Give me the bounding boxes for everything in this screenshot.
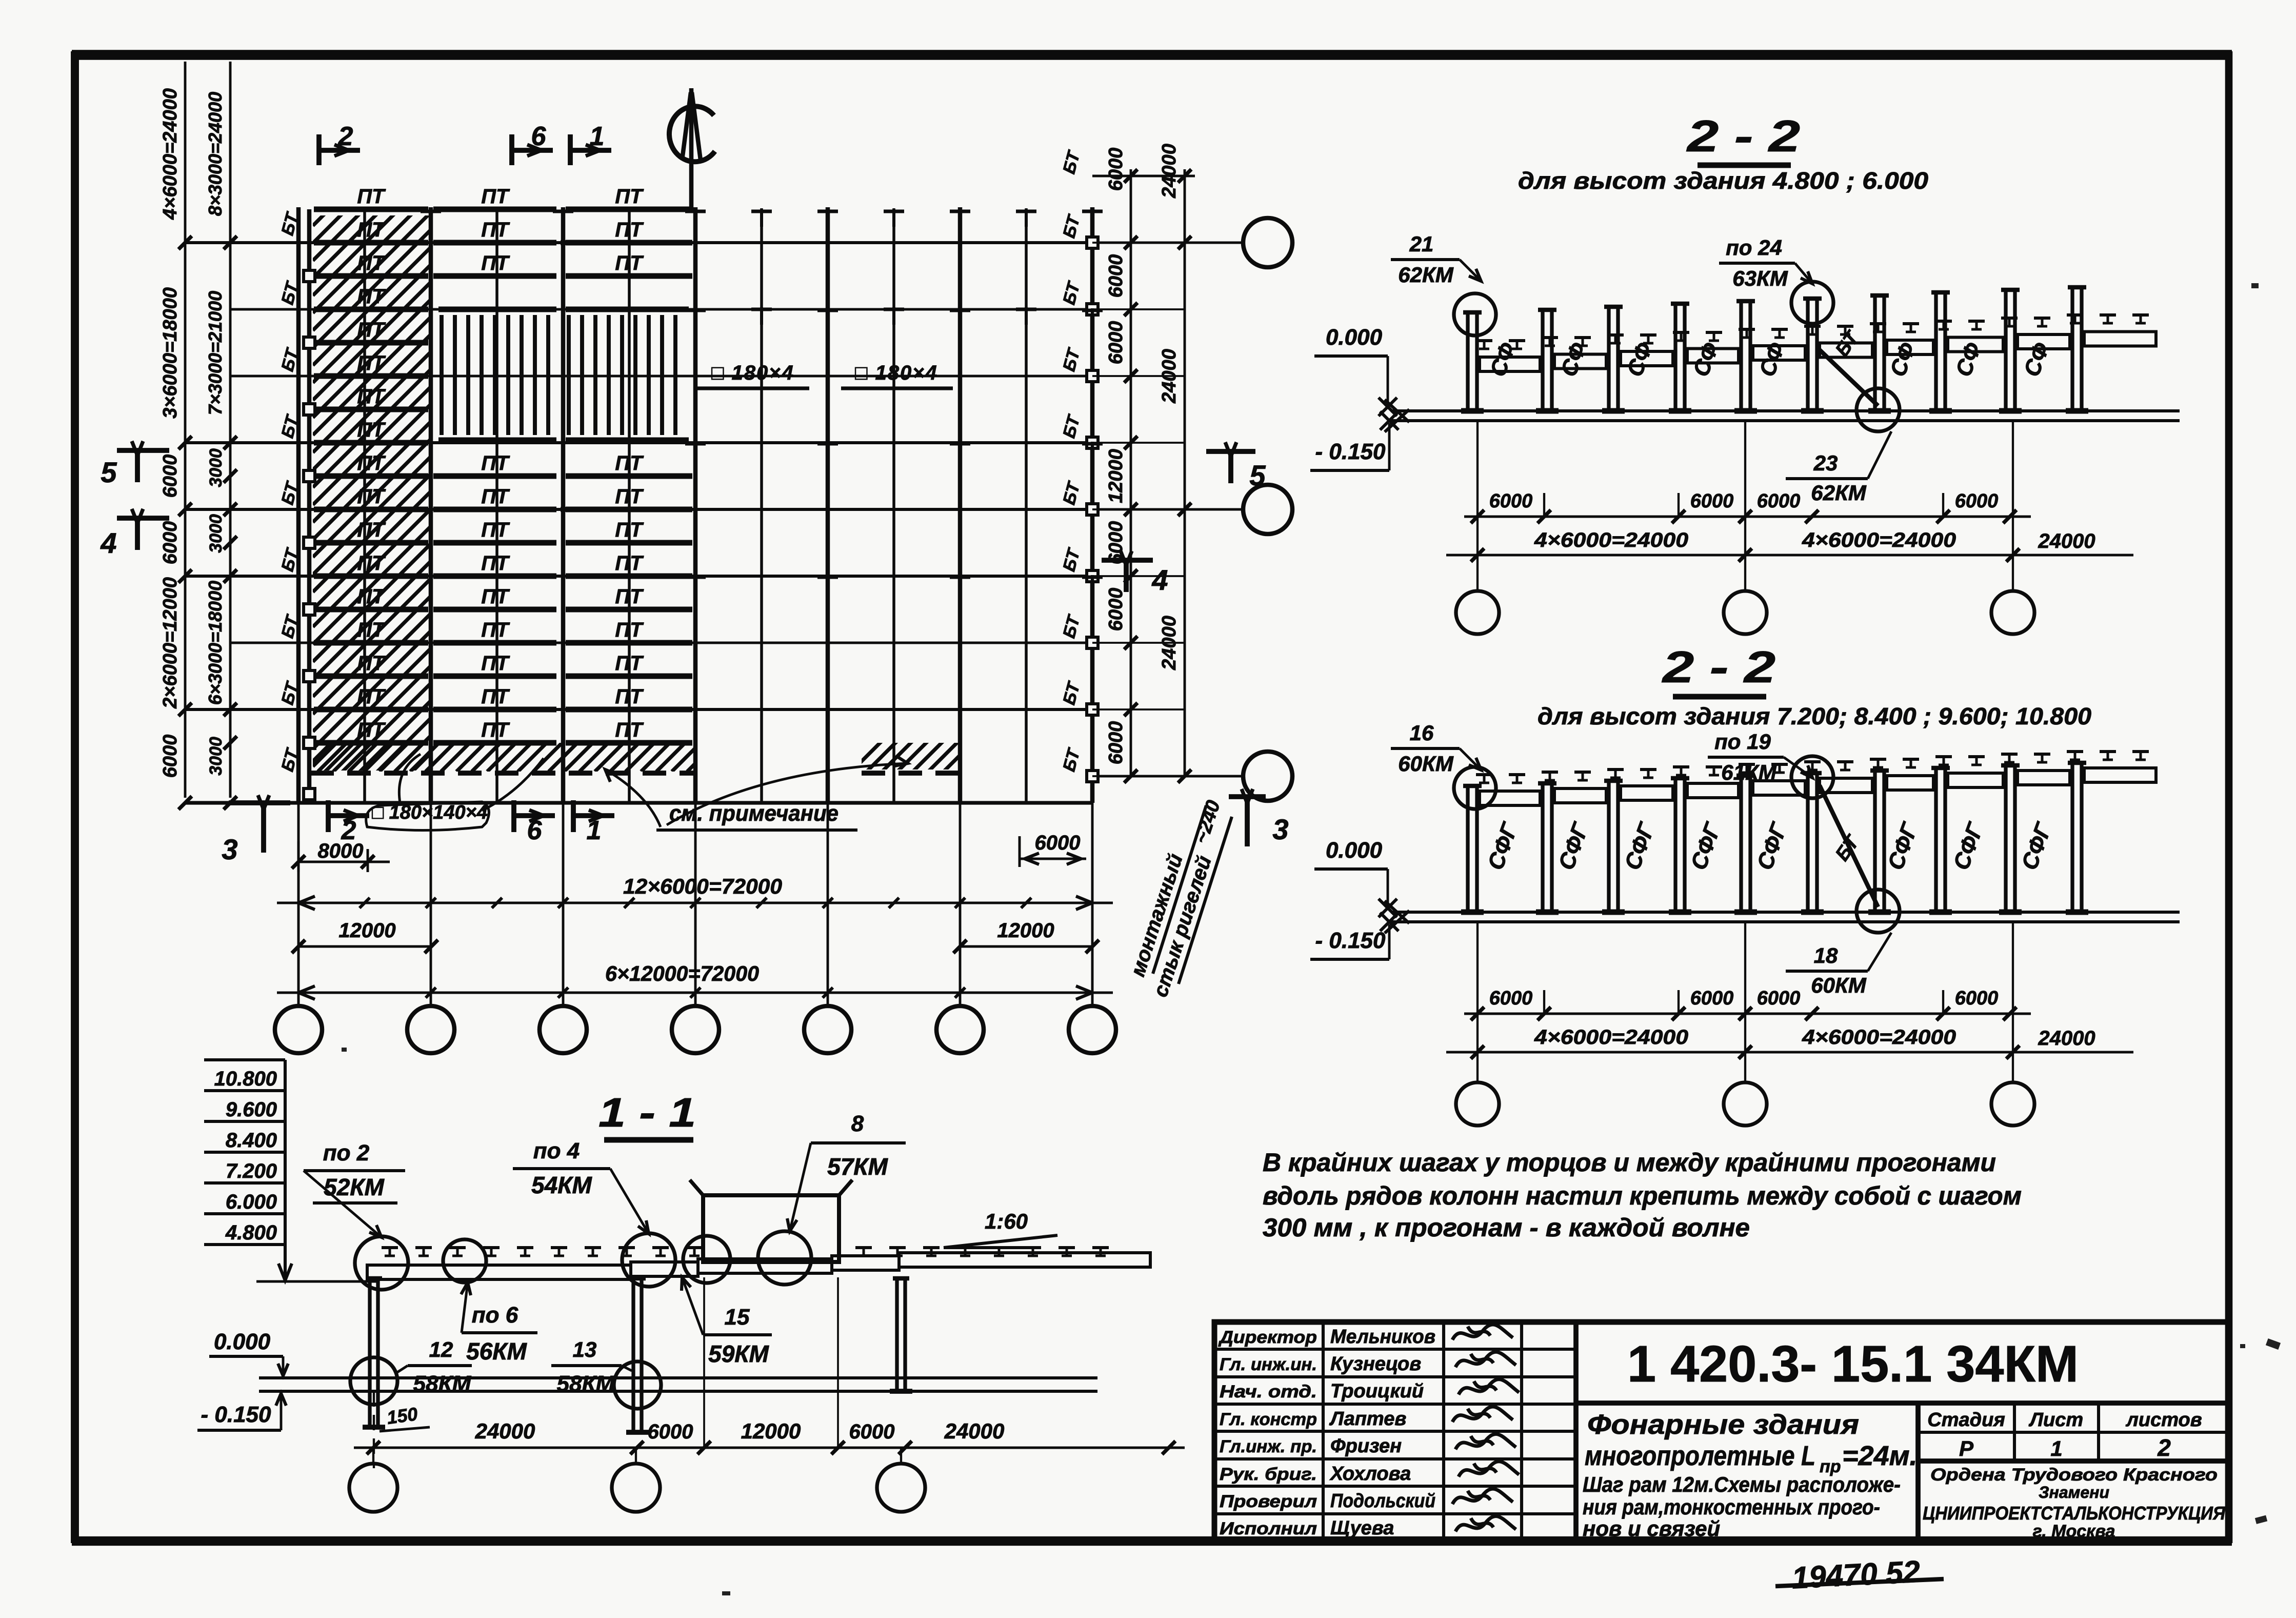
section 2-2: dimension line 24000s xyxy=(1446,1051,2133,1054)
svg-text:листов: листов xyxy=(2125,1409,2202,1431)
svg-text:ПТ: ПТ xyxy=(615,519,644,541)
svg-text:4×6000=24000: 4×6000=24000 xyxy=(1534,1026,1688,1049)
section 2-2: deck rail symbols xyxy=(1476,341,1492,349)
svg-text:24000: 24000 xyxy=(2038,530,2095,553)
svg-text:6000: 6000 xyxy=(159,735,181,778)
section 1-1: grid bubbles xyxy=(372,1448,374,1465)
svg-text:ПТ: ПТ xyxy=(357,619,386,641)
title block rows xyxy=(1214,1348,1576,1351)
svg-text:для высот здания 7.200; 8.4: для высот здания 7.200; 8.400 ; 9.600; 1… xyxy=(1538,703,2091,729)
plan: left dimension lines xyxy=(184,62,187,798)
svg-text:6: 6 xyxy=(531,122,547,151)
svg-text:8000: 8000 xyxy=(318,840,364,862)
svg-text:6000: 6000 xyxy=(1489,490,1533,512)
svg-text:Проверил: Проверил xyxy=(1220,1492,1317,1511)
plan: dashed erection joint line xyxy=(310,771,697,776)
title block stage/sheet xyxy=(1918,1431,2229,1434)
svg-text:ПТ: ПТ xyxy=(481,452,510,475)
svg-text:0.000: 0.000 xyxy=(1326,325,1383,350)
svg-text:Гл. инж.ин.: Гл. инж.ин. xyxy=(1220,1355,1317,1374)
border frame xyxy=(72,50,2232,60)
svg-text:6000: 6000 xyxy=(1690,988,1734,1009)
section 2-2: dimension line 24000s xyxy=(1446,554,2133,557)
svg-text:3: 3 xyxy=(222,833,237,865)
plan: right dimension lines xyxy=(1130,169,1132,776)
svg-text:23: 23 xyxy=(1813,451,1838,475)
svg-text:вдоль рядов колонн настил: вдоль рядов колонн настил крепить между … xyxy=(1263,1181,2022,1210)
section 2-2: roof beams between columns xyxy=(1480,791,1540,805)
section 2-2: ground lines xyxy=(1391,409,2180,412)
svg-text:ПТ: ПТ xyxy=(481,685,510,708)
svg-text:ПТ: ПТ xyxy=(481,719,510,741)
section 2-2: columns xyxy=(1466,786,1469,912)
svg-text:Стадия: Стадия xyxy=(1927,1409,2005,1431)
scanner specks xyxy=(2251,283,2259,288)
svg-text:3: 3 xyxy=(1272,813,1288,845)
svg-text:ПТ: ПТ xyxy=(615,619,644,641)
svg-text:ПТ: ПТ xyxy=(481,652,510,675)
svg-text:12000: 12000 xyxy=(338,919,395,942)
plan: intermediate vertical grid lines xyxy=(363,208,366,803)
plan: rows extending to right grid bubbles xyxy=(1092,242,1243,244)
svg-text:4×6000=24000: 4×6000=24000 xyxy=(1802,1026,1956,1049)
svg-text:ПТ: ПТ xyxy=(481,619,510,641)
svg-text:ПТ: ПТ xyxy=(615,452,644,475)
svg-text:6000: 6000 xyxy=(159,455,181,498)
svg-text:3000: 3000 xyxy=(206,514,226,553)
svg-text:24000: 24000 xyxy=(1159,616,1180,670)
svg-text:Фризен: Фризен xyxy=(1330,1435,1402,1457)
north arrow symbol xyxy=(669,106,715,162)
svg-text:6×12000=72000: 6×12000=72000 xyxy=(605,961,759,985)
plan: right row extension lines xyxy=(1092,175,1185,177)
svg-text:ПТ: ПТ xyxy=(615,652,644,675)
svg-text:ПТ: ПТ xyxy=(615,252,644,274)
svg-text:58КМ: 58КМ xyxy=(557,1371,615,1396)
svg-text:Щуева: Щуева xyxy=(1330,1517,1394,1539)
plan: section markers 5 and 4 left xyxy=(117,448,169,453)
svg-text:60КМ: 60КМ xyxy=(1398,752,1454,776)
section 2-2: columns xyxy=(1466,312,1469,411)
plan: left column line with gusset squares and BT labels xyxy=(307,209,312,800)
svg-text:57КМ: 57КМ xyxy=(827,1153,888,1180)
svg-text:ПТ: ПТ xyxy=(357,219,386,241)
svg-text:6000: 6000 xyxy=(1105,148,1127,191)
svg-text:6000: 6000 xyxy=(1105,254,1127,298)
svg-text:ПТ: ПТ xyxy=(481,219,510,241)
section 2-2: dimension line 6000s xyxy=(1464,516,2031,518)
section 1-1: columns xyxy=(368,1278,371,1427)
svg-text:Кузнецов: Кузнецов xyxy=(1330,1353,1421,1375)
svg-text:12000: 12000 xyxy=(997,919,1054,942)
section 2-2: grid bubbles xyxy=(1476,922,1479,1082)
svg-text:Рук. бриг.: Рук. бриг. xyxy=(1220,1465,1317,1484)
svg-text:ПТ: ПТ xyxy=(357,285,386,308)
svg-text:1: 1 xyxy=(2050,1436,2062,1461)
svg-text:□ 180×4: □ 180×4 xyxy=(855,362,938,384)
svg-text:24000: 24000 xyxy=(944,1419,1005,1443)
plan: right grid bubbles xyxy=(1243,218,1292,267)
svg-text:24000: 24000 xyxy=(2038,1027,2095,1050)
svg-text:6000: 6000 xyxy=(1035,832,1081,854)
svg-text:4×6000=24000: 4×6000=24000 xyxy=(159,88,181,220)
svg-text:Лист: Лист xyxy=(2028,1409,2083,1431)
svg-text:4.800: 4.800 xyxy=(225,1221,277,1244)
svg-text:ПТ: ПТ xyxy=(481,552,510,575)
svg-text:60КМ: 60КМ xyxy=(1811,973,1867,997)
plan: horizontal grid rows xyxy=(185,241,1092,244)
svg-text:Подольский: Подольский xyxy=(1330,1490,1435,1512)
svg-text:Гл.инж. пр.: Гл.инж. пр. xyxy=(1220,1437,1317,1456)
svg-text:8: 8 xyxy=(851,1111,864,1136)
plan: bottom dimension 6000 right xyxy=(1020,858,1086,860)
title block columns xyxy=(1322,1322,1325,1541)
svg-text:3000: 3000 xyxy=(206,448,226,487)
svg-text:Фонарные здания: Фонарные здания xyxy=(1587,1409,1859,1440)
svg-text:5: 5 xyxy=(101,456,117,488)
svg-text:- 0.150: - 0.150 xyxy=(1315,439,1386,464)
svg-text:нов и связей: нов и связей xyxy=(1583,1516,1720,1541)
svg-text:ПТ: ПТ xyxy=(481,185,510,208)
svg-text:1: 1 xyxy=(587,816,602,845)
plan: profiled deck stripe panels xyxy=(438,307,556,312)
svg-text:4×6000=24000: 4×6000=24000 xyxy=(1534,529,1688,551)
section 1-1: ground lines xyxy=(259,1376,1097,1379)
svg-text:6000: 6000 xyxy=(849,1420,895,1443)
svg-text:1:60: 1:60 xyxy=(985,1209,1028,1233)
svg-text:7.200: 7.200 xyxy=(226,1160,277,1182)
svg-text:54КМ: 54КМ xyxy=(531,1172,592,1198)
svg-text:6000: 6000 xyxy=(1105,721,1127,765)
plan: bottom dimension line 12x6000=72000 xyxy=(277,902,1113,904)
svg-text:г. Москва: г. Москва xyxy=(2033,1522,2115,1541)
svg-text:ПТ: ПТ xyxy=(357,485,386,508)
plan: bottom dimension line 8000 xyxy=(298,861,390,863)
plan: top-right short row xyxy=(1092,175,1195,177)
svg-text:1 420.3- 15.1 34КМ: 1 420.3- 15.1 34КМ xyxy=(1627,1335,2079,1393)
svg-text:ПТ: ПТ xyxy=(481,485,510,508)
plan: bottom edge row xyxy=(185,801,1092,804)
svg-text:24000: 24000 xyxy=(1159,144,1180,199)
svg-text:10.800: 10.800 xyxy=(214,1068,277,1090)
svg-text:0.000: 0.000 xyxy=(1326,838,1383,863)
svg-text:61КМ: 61КМ xyxy=(1721,760,1777,784)
svg-text:2 - 2: 2 - 2 xyxy=(1661,643,1775,692)
svg-text:ЦНИИПРОЕКТСТАЛЬКОНСТРУКЦИЯ: ЦНИИПРОЕКТСТАЛЬКОНСТРУКЦИЯ xyxy=(1923,1503,2226,1524)
svg-text:6: 6 xyxy=(527,816,543,845)
plan: section markers 5 and 4 right xyxy=(1206,449,1255,454)
title block signatures xyxy=(1452,1325,1513,1340)
svg-text:для высот здания 4.800 ; 6.: для высот здания 4.800 ; 6.000 xyxy=(1518,167,1928,194)
svg-text:Нач. отд.: Нач. отд. xyxy=(1220,1382,1317,1402)
plan: main vertical grid lines xyxy=(296,207,301,803)
svg-text:ния рам,тонкостенных прого-: ния рам,тонкостенных прого- xyxy=(1583,1495,1880,1519)
svg-text:Шаг рам 12м.Схемы расположе-: Шаг рам 12м.Схемы расположе- xyxy=(1583,1472,1901,1496)
svg-text:2: 2 xyxy=(2157,1434,2171,1461)
svg-text:ПТ: ПТ xyxy=(357,319,386,341)
svg-text:ПТ: ПТ xyxy=(357,419,386,441)
svg-text:6000: 6000 xyxy=(1757,490,1801,512)
svg-text:13: 13 xyxy=(573,1337,597,1362)
svg-text:- 0.150: - 0.150 xyxy=(201,1402,272,1427)
svg-text:ПТ: ПТ xyxy=(615,485,644,508)
svg-text:Директор: Директор xyxy=(1218,1328,1317,1347)
svg-text:4: 4 xyxy=(100,527,116,559)
plan: T symbols on grid tops xyxy=(421,209,441,227)
svg-text:62КМ: 62КМ xyxy=(1811,481,1867,505)
svg-text:300 мм , к прогонам - в каж: 300 мм , к прогонам - в каждой волне xyxy=(1263,1213,1750,1242)
svg-text:12×6000=72000: 12×6000=72000 xyxy=(623,874,782,898)
svg-text:ПТ: ПТ xyxy=(357,452,386,475)
section 1-1: deck rail symbols xyxy=(382,1248,398,1256)
plan: bottom dimension 12000 left xyxy=(298,945,431,948)
svg-text:6000: 6000 xyxy=(1105,321,1127,365)
svg-text:8.400: 8.400 xyxy=(226,1129,277,1152)
svg-text:ПТ: ПТ xyxy=(357,352,386,374)
svg-text:6000: 6000 xyxy=(1757,988,1801,1009)
svg-text:24000: 24000 xyxy=(475,1419,535,1443)
svg-text:63КМ: 63КМ xyxy=(1732,266,1788,290)
plan: bottom grid bubbles xyxy=(275,1006,322,1053)
svg-text:6000: 6000 xyxy=(1105,521,1127,565)
svg-text:9.600: 9.600 xyxy=(226,1098,277,1121)
svg-text:Троицкий: Троицкий xyxy=(1330,1380,1424,1402)
svg-text:150: 150 xyxy=(386,1403,419,1428)
svg-text:4: 4 xyxy=(1151,564,1168,596)
svg-text:Знамени: Знамени xyxy=(2039,1483,2109,1502)
svg-text:24000: 24000 xyxy=(1159,349,1180,404)
svg-text:ПТ: ПТ xyxy=(615,219,644,241)
section 1-1: thin axis lines xyxy=(703,1277,705,1448)
svg-text:ПТ: ПТ xyxy=(357,719,386,741)
svg-text:12000: 12000 xyxy=(741,1419,801,1443)
section 1-1: base circles xyxy=(350,1357,397,1405)
svg-text:6000: 6000 xyxy=(648,1420,693,1443)
svg-text:1 - 1: 1 - 1 xyxy=(598,1090,696,1135)
plan: bottom section markers 2 6 1 xyxy=(326,800,331,832)
plan: axis drop lines to bottom circles xyxy=(297,803,300,1005)
svg-text:58КМ: 58КМ xyxy=(413,1371,472,1396)
svg-text:Исполнил: Исполнил xyxy=(1220,1519,1317,1538)
svg-text:6000: 6000 xyxy=(1955,988,1999,1009)
svg-text:12: 12 xyxy=(429,1337,453,1362)
svg-text:Мельников: Мельников xyxy=(1330,1326,1435,1348)
svg-text:0.000: 0.000 xyxy=(214,1329,271,1354)
plan: purlin (beam) rows with PT labels xyxy=(314,207,428,212)
svg-text:см. примечание: см. примечание xyxy=(669,801,838,826)
svg-text:ПТ: ПТ xyxy=(357,519,386,541)
svg-text:18: 18 xyxy=(1814,943,1838,968)
section 1-1: lantern box xyxy=(703,1195,839,1262)
svg-text:по 6: по 6 xyxy=(472,1303,518,1328)
svg-text:ПТ: ПТ xyxy=(357,685,386,708)
svg-text:Лаптев: Лаптев xyxy=(1329,1408,1406,1430)
plan: bottom dimension line 6x12000=72000 xyxy=(277,992,1113,994)
svg-text:ПТ: ПТ xyxy=(615,685,644,708)
svg-text:16: 16 xyxy=(1410,721,1434,745)
svg-text:ПТ: ПТ xyxy=(357,552,386,575)
svg-text:8×3000=24000: 8×3000=24000 xyxy=(205,92,226,216)
svg-text:ПТ: ПТ xyxy=(357,652,386,675)
section 2-2: ground lines xyxy=(1391,911,2180,914)
section 1-1: dimension line xyxy=(354,1447,1185,1449)
svg-text:56КМ: 56КМ xyxy=(466,1338,527,1365)
plan: section markers 3 left and right xyxy=(229,800,290,805)
svg-text:3×6000=18000: 3×6000=18000 xyxy=(159,287,181,419)
svg-text:□ 180×4: □ 180×4 xyxy=(711,362,794,384)
svg-text:4×6000=24000: 4×6000=24000 xyxy=(1802,529,1956,551)
title block outer xyxy=(1214,1322,2229,1541)
svg-text:по 2: по 2 xyxy=(323,1140,370,1166)
svg-text:59КМ: 59КМ xyxy=(708,1340,769,1367)
svg-text:62КМ: 62КМ xyxy=(1398,263,1454,287)
svg-text:по 19: по 19 xyxy=(1714,729,1771,754)
svg-text:6000: 6000 xyxy=(1105,588,1127,632)
svg-text:ПТ: ПТ xyxy=(481,519,510,541)
svg-text:2×6000=12000: 2×6000=12000 xyxy=(159,577,181,709)
section 2-2: grid bubbles xyxy=(1476,421,1479,591)
svg-text:6000: 6000 xyxy=(1955,490,1999,512)
svg-text:15: 15 xyxy=(725,1305,750,1330)
svg-text:В крайних шагах у торцов: В крайних шагах у торцов и между крайним… xyxy=(1263,1148,1996,1177)
svg-text:Ордена Трудового Красного: Ордена Трудового Красного xyxy=(1930,1465,2218,1485)
svg-text:7×3000=21000: 7×3000=21000 xyxy=(205,291,226,415)
svg-text:Хохлова: Хохлова xyxy=(1329,1463,1411,1485)
svg-text:6000: 6000 xyxy=(1690,490,1734,512)
section 1-1: level table xyxy=(204,1058,285,1061)
svg-text:Р: Р xyxy=(1959,1436,1974,1461)
svg-text:ПТ: ПТ xyxy=(481,585,510,608)
svg-text:Гл. констр: Гл. констр xyxy=(1220,1410,1317,1429)
svg-text:2: 2 xyxy=(338,122,353,151)
svg-text:ПТ: ПТ xyxy=(357,185,386,208)
svg-text:ПТ: ПТ xyxy=(615,585,644,608)
svg-text:6.000: 6.000 xyxy=(226,1191,277,1213)
section 1-1: roof line extension left xyxy=(256,1280,380,1283)
section 2-2: dimension line 6000s xyxy=(1464,1013,2031,1015)
svg-text:1: 1 xyxy=(590,122,605,151)
svg-text:по 24: по 24 xyxy=(1726,235,1782,260)
svg-text:по 4: по 4 xyxy=(533,1138,580,1163)
svg-text:21: 21 xyxy=(1409,232,1434,256)
svg-text:ПТ: ПТ xyxy=(357,252,386,274)
section 2-2: deck rail symbols xyxy=(1476,775,1492,783)
section 1-1: beam circles xyxy=(355,1236,408,1290)
svg-text:3000: 3000 xyxy=(206,737,226,776)
section 1-1: roof beam xyxy=(367,1265,631,1279)
svg-text:6000: 6000 xyxy=(159,521,181,565)
svg-text:2 - 2: 2 - 2 xyxy=(1686,112,1800,161)
svg-text:6×3000=18000: 6×3000=18000 xyxy=(205,581,226,705)
svg-text:=24м.: =24м. xyxy=(1842,1441,1918,1471)
plan: top section markers 2 6 1 xyxy=(316,134,322,165)
svg-text:19470 52: 19470 52 xyxy=(1791,1554,1921,1595)
svg-text:ПТ: ПТ xyxy=(357,385,386,408)
svg-text:ПТ: ПТ xyxy=(481,252,510,274)
svg-text:многопролетные L: многопролетные L xyxy=(1585,1441,1815,1471)
plan: right column line with gusset squares and BT labels xyxy=(1087,237,1098,248)
svg-text:ПТ: ПТ xyxy=(357,585,386,608)
svg-text:ПТ: ПТ xyxy=(615,719,644,741)
svg-text:- 0.150: - 0.150 xyxy=(1315,928,1386,953)
svg-text:12000: 12000 xyxy=(1105,449,1127,503)
section 2-2: roof beams between columns xyxy=(1480,357,1540,371)
svg-text:6000: 6000 xyxy=(1489,988,1533,1009)
plan: bottom dimension 12000 right xyxy=(960,945,1092,948)
svg-text:ПТ: ПТ xyxy=(615,185,644,208)
svg-text:ПТ: ПТ xyxy=(615,552,644,575)
